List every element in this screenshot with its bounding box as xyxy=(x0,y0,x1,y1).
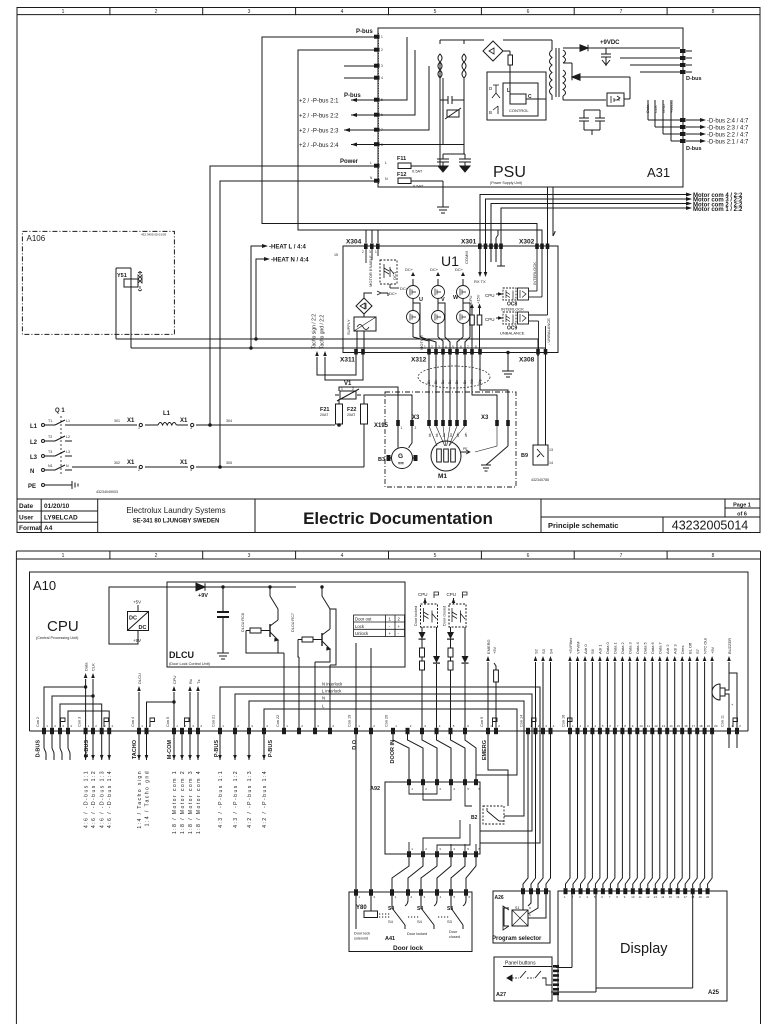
svg-text:Power: Power xyxy=(340,159,359,165)
con4 con5 wires up xyxy=(139,692,198,728)
svg-text:Con 21: Con 21 xyxy=(212,715,216,727)
program selector A26 xyxy=(493,891,550,943)
svg-text:Data: Data xyxy=(83,662,88,671)
svg-text:Tacho sign / 2:2: Tacho sign / 2:2 xyxy=(312,314,318,349)
svg-text:DC: DC xyxy=(129,616,137,622)
X302 pins xyxy=(535,244,549,250)
svg-text:Door closed: Door closed xyxy=(443,606,447,626)
svg-text:Adr 0: Adr 0 xyxy=(583,644,588,654)
svg-text:4: 4 xyxy=(381,76,383,80)
mains rows xyxy=(72,423,364,469)
svg-text:D-BUS: D-BUS xyxy=(36,740,42,758)
svg-text:4:6 / -D-bus 1:3: 4:6 / -D-bus 1:3 xyxy=(100,770,106,828)
svg-text:Con 2: Con 2 xyxy=(36,717,40,727)
svg-text:INTERLOCK: INTERLOCK xyxy=(501,307,524,312)
motor com wires xyxy=(480,187,686,244)
svg-text:G: G xyxy=(398,453,403,460)
CPU bus nest wires xyxy=(44,679,109,728)
svg-text:S6: S6 xyxy=(590,648,595,654)
svg-text:solenoid: solenoid xyxy=(354,937,368,941)
motor enclosure dashed box xyxy=(385,392,516,487)
svg-text:+9V: +9V xyxy=(710,646,715,654)
svg-text:DC+: DC+ xyxy=(430,267,439,272)
svg-text:S4: S4 xyxy=(548,648,553,654)
svg-text:1: 1 xyxy=(381,35,383,39)
svg-text:X1: X1 xyxy=(180,460,188,466)
svg-text:L1: L1 xyxy=(163,411,171,417)
svg-text:CPU: CPU xyxy=(418,592,428,597)
svg-text:4:3 / -P-bus 1:2: 4:3 / -P-bus 1:2 xyxy=(233,770,239,828)
svg-text:Rx: Rx xyxy=(188,679,193,684)
svg-text:Data 3: Data 3 xyxy=(628,641,633,654)
svg-text:(Door Lock Control Unit): (Door Lock Control Unit) xyxy=(169,662,211,666)
svg-text:N: N xyxy=(30,469,34,475)
connector key marks xyxy=(61,718,738,727)
tacho out arrows xyxy=(139,734,147,760)
svg-text:CPU: CPU xyxy=(485,293,495,298)
svg-text:4: 4 xyxy=(341,553,344,559)
U1 box xyxy=(343,246,558,353)
svg-text:DLCU: DLCU xyxy=(169,650,194,660)
svg-text:Data 4: Data 4 xyxy=(635,641,640,654)
motor wires X312 to X3 xyxy=(429,355,508,421)
svg-text:closed: closed xyxy=(449,935,460,939)
svg-text:Data 2: Data 2 xyxy=(620,641,625,654)
D-bus out arrows xyxy=(86,734,110,760)
svg-text:Door locked: Door locked xyxy=(407,932,427,936)
svg-text:D-bus: D-bus xyxy=(686,146,702,152)
ground under U1 xyxy=(502,351,514,377)
svg-text:N1: N1 xyxy=(48,464,53,468)
svg-text:4:6 / -D-bus 1:4: 4:6 / -D-bus 1:4 xyxy=(107,770,113,828)
svg-text:A26: A26 xyxy=(495,895,504,901)
svg-text:Con 9: Con 9 xyxy=(480,717,484,727)
svg-text:SE-341 80 LJUNGBY SWEDEN: SE-341 80 LJUNGBY SWEDEN xyxy=(133,519,220,525)
svg-text:L3: L3 xyxy=(66,450,70,454)
display box xyxy=(558,891,727,1001)
svg-text:A106: A106 xyxy=(27,234,46,243)
svg-text:1: 1 xyxy=(138,426,140,430)
door in wires to A92 xyxy=(393,734,476,782)
svg-text:3: 3 xyxy=(248,553,251,559)
svg-text:Con 5: Con 5 xyxy=(166,717,170,727)
svg-text:EMERG: EMERG xyxy=(482,740,488,760)
svg-text:Q 1: Q 1 xyxy=(55,408,65,414)
svg-text:Data 5: Data 5 xyxy=(643,641,648,654)
svg-text:5: 5 xyxy=(434,553,437,559)
svg-text:S3: S3 xyxy=(541,648,546,654)
svg-text:UNBALANCE: UNBALANCE xyxy=(500,331,525,336)
svg-text:+5V: +5V xyxy=(492,646,497,654)
wires con16 to display xyxy=(566,734,713,888)
svg-text:6: 6 xyxy=(527,553,530,559)
svg-text:Con 3: Con 3 xyxy=(78,717,82,727)
regulator + caps right xyxy=(579,77,630,135)
tacho wires xyxy=(317,353,363,381)
svg-text:N: N xyxy=(385,177,388,181)
X308 pins xyxy=(536,349,547,355)
svg-text:of 6: of 6 xyxy=(737,512,747,518)
svg-text:Con 22: Con 22 xyxy=(276,715,280,727)
main transformer xyxy=(503,40,566,100)
svg-text:DLCU: DLCU xyxy=(137,673,142,684)
svg-text:4:3 / -P-bus 1:1: 4:3 / -P-bus 1:1 xyxy=(218,770,224,828)
svg-text:S3: S3 xyxy=(447,919,453,924)
svg-text:12: 12 xyxy=(654,724,658,728)
svg-text:D-bus: D-bus xyxy=(686,76,702,82)
svg-text:01/20/10: 01/20/10 xyxy=(44,503,70,510)
svg-text:D O: D O xyxy=(352,739,358,750)
svg-text:DLCU RC6: DLCU RC6 xyxy=(241,613,245,632)
X301 pins xyxy=(478,244,503,250)
door out table xyxy=(354,615,405,637)
svg-text:wh: wh xyxy=(464,433,468,437)
svg-text:DC+: DC+ xyxy=(389,291,398,296)
svg-text:Motor com 1 / 2:2: Motor com 1 / 2:2 xyxy=(693,207,743,213)
svg-text:4:6 / -D-bus 1:1: 4:6 / -D-bus 1:1 xyxy=(83,770,89,828)
svg-text:Y80: Y80 xyxy=(356,905,367,911)
svg-text:X304: X304 xyxy=(346,239,362,246)
svg-text:BL Off: BL Off xyxy=(688,642,693,654)
PSU bottom caps and ground xyxy=(437,145,471,214)
svg-text:X195: X195 xyxy=(374,423,389,429)
svg-text:X301: X301 xyxy=(461,239,477,246)
svg-text:Tacho gnd / 2:2: Tacho gnd / 2:2 xyxy=(320,315,326,349)
svg-text:D-BUS: D-BUS xyxy=(84,740,90,758)
door switch S3 xyxy=(438,895,466,929)
svg-text:B: B xyxy=(489,110,492,115)
svg-text:1: 1 xyxy=(62,553,65,559)
svg-text:14: 14 xyxy=(549,461,553,465)
svg-text:Electrolux Laundry Systems: Electrolux Laundry Systems xyxy=(126,506,225,515)
svg-text:8: 8 xyxy=(712,553,715,559)
svg-text:Program selector: Program selector xyxy=(492,936,542,942)
svg-text:Data 0: Data 0 xyxy=(605,641,610,654)
svg-text:U: U xyxy=(419,297,423,303)
svg-text:- UNBALANCE: - UNBALANCE xyxy=(546,318,551,345)
svg-text:X302: X302 xyxy=(519,239,535,246)
svg-text:CPU: CPU xyxy=(447,592,457,597)
MOSFET bridge xyxy=(407,286,470,324)
svg-text:F11: F11 xyxy=(397,156,406,162)
svg-text:S4: S4 xyxy=(388,906,394,912)
A10 box xyxy=(30,572,749,731)
PSU left connector body xyxy=(378,33,380,184)
svg-text:+15V: +15V xyxy=(476,294,481,304)
svg-text:L2: L2 xyxy=(30,440,38,446)
svg-text:18: 18 xyxy=(699,724,703,728)
svg-text:4: 4 xyxy=(190,468,192,472)
svg-text:43232005014: 43232005014 xyxy=(672,519,749,533)
svg-text:-D-bus 2:1 / 4:7: -D-bus 2:1 / 4:7 xyxy=(707,140,749,146)
svg-text:Adr 2: Adr 2 xyxy=(665,644,670,654)
svg-text:Tx: Tx xyxy=(196,680,201,684)
svg-text:7: 7 xyxy=(620,553,623,559)
svg-text:16: 16 xyxy=(684,724,688,728)
svg-text:LY9ELCAD: LY9ELCAD xyxy=(44,515,78,522)
svg-text:Y51: Y51 xyxy=(117,273,127,279)
svg-text:X3: X3 xyxy=(412,415,420,421)
svg-text:1: 1 xyxy=(341,387,343,391)
+9V feed wire xyxy=(109,583,296,644)
svg-text:CPU: CPU xyxy=(172,675,177,684)
svg-text:Door lock: Door lock xyxy=(393,945,423,952)
svg-text:Adr 3: Adr 3 xyxy=(673,644,678,654)
svg-text:17: 17 xyxy=(684,895,688,899)
bridge rectifier xyxy=(483,40,513,85)
svg-text:CLK: CLK xyxy=(91,663,96,671)
svg-text:+2 / -P-bus 2:4: +2 / -P-bus 2:4 xyxy=(299,143,339,149)
svg-text:V1: V1 xyxy=(344,381,352,387)
svg-text:0.5AT: 0.5AT xyxy=(412,169,423,174)
svg-text:PE: PE xyxy=(463,447,468,451)
OC9 unbalance xyxy=(496,249,548,349)
svg-text:+9V: +9V xyxy=(133,638,141,643)
motor com out arrows xyxy=(174,734,198,760)
svg-text:X308: X308 xyxy=(519,357,535,364)
svg-text:DC+: DC+ xyxy=(455,267,464,272)
svg-text:M-COM: M-COM xyxy=(167,740,173,760)
svg-text:Con 4: Con 4 xyxy=(131,717,135,727)
svg-text:1: 1 xyxy=(401,426,403,430)
svg-text:PE: PE xyxy=(28,484,36,490)
svg-text:Dres: Dres xyxy=(680,646,685,654)
title block page 1 xyxy=(17,499,760,533)
svg-text:20: 20 xyxy=(706,895,710,899)
svg-text:X1: X1 xyxy=(180,418,188,424)
svg-text:INTERLOCK: INTERLOCK xyxy=(532,262,537,285)
svg-text:304: 304 xyxy=(226,419,232,423)
svg-text:T3: T3 xyxy=(48,450,52,454)
solenoid Y51 xyxy=(116,268,142,348)
svg-text:4:2 / -P-bus 1:4: 4:2 / -P-bus 1:4 xyxy=(262,770,268,828)
svg-text:S2: S2 xyxy=(533,648,538,654)
emerg wires xyxy=(488,662,498,728)
X311 pins xyxy=(354,349,365,355)
A106 dashed box xyxy=(22,231,174,334)
svg-text:2: 2 xyxy=(381,48,383,52)
page 1 frame xyxy=(17,8,760,533)
S2 S3 S4 xyxy=(528,662,551,734)
svg-text:Display: Display xyxy=(620,941,668,957)
svg-text:S4: S4 xyxy=(388,919,394,924)
svg-text:Principle schematic: Principle schematic xyxy=(548,521,618,530)
svg-text:N: N xyxy=(66,464,69,468)
svg-text:bk: bk xyxy=(428,433,432,437)
door switch S4 xyxy=(408,895,437,929)
svg-text:Date: Date xyxy=(19,503,33,510)
svg-text:CLK: CLK xyxy=(653,105,658,113)
svg-text:2: 2 xyxy=(362,250,364,254)
svg-text:302: 302 xyxy=(114,461,120,465)
phase wires down to X312 xyxy=(413,303,470,349)
svg-text:DOOR IN: DOOR IN xyxy=(390,740,396,764)
door lock assembly box xyxy=(349,892,472,952)
svg-text:14: 14 xyxy=(661,895,665,899)
svg-text:A92: A92 xyxy=(370,786,380,792)
svg-text:P-bus: P-bus xyxy=(344,93,361,99)
svg-text:P-BUS: P-BUS xyxy=(268,740,274,757)
svg-text:COMM: COMM xyxy=(464,251,469,264)
svg-text:DC+: DC+ xyxy=(405,267,414,272)
svg-text:X3: X3 xyxy=(481,415,489,421)
svg-text:43234049003: 43234049003 xyxy=(96,490,118,494)
svg-text:(Central Processing Unit): (Central Processing Unit) xyxy=(36,636,79,640)
svg-text:2: 2 xyxy=(138,468,140,472)
svg-text:B9: B9 xyxy=(521,453,528,459)
svg-text:DLCU RC7: DLCU RC7 xyxy=(291,613,295,632)
svg-text:RX TX: RX TX xyxy=(474,279,486,284)
svg-text:P-bus: P-bus xyxy=(356,29,373,35)
svg-text:L1: L1 xyxy=(66,419,70,423)
svg-text:CPU: CPU xyxy=(485,317,495,322)
motor M1 xyxy=(429,426,508,471)
svg-text:11: 11 xyxy=(639,895,642,899)
svg-text:EMERG: EMERG xyxy=(486,639,491,654)
svg-text:1:4 / Tacho gnd: 1:4 / Tacho gnd xyxy=(144,770,150,826)
svg-text:A4: A4 xyxy=(44,525,53,532)
fuse F11 xyxy=(398,163,443,184)
svg-text:1: 1 xyxy=(375,250,377,254)
p-bus out arrows xyxy=(220,734,264,760)
svg-text:+2 / -P-bus 2:3: +2 / -P-bus 2:3 xyxy=(299,129,339,135)
svg-text:OC1: OC1 xyxy=(392,271,397,280)
stubs below Con 2 xyxy=(44,734,70,760)
svg-text:Page 1: Page 1 xyxy=(733,503,751,509)
svg-text:17: 17 xyxy=(692,724,696,728)
svg-text:15: 15 xyxy=(677,724,681,728)
svg-text:TACHO: TACHO xyxy=(132,739,138,759)
svg-text:10: 10 xyxy=(639,724,643,728)
svg-text:A41: A41 xyxy=(385,936,395,942)
svg-text:3: 3 xyxy=(190,426,192,430)
svg-text:T2: T2 xyxy=(48,435,52,439)
svg-text:DC: DC xyxy=(139,625,147,631)
V1 varistor + fuses F21 F22 xyxy=(335,387,412,467)
svg-text:bk: bk xyxy=(435,433,439,437)
svg-text:8: 8 xyxy=(712,9,715,15)
svg-text:4: 4 xyxy=(341,9,344,15)
X312 pins xyxy=(427,349,482,355)
svg-text:VPWM: VPWM xyxy=(575,642,580,654)
svg-text:1:8 / Motor com 4: 1:8 / Motor com 4 xyxy=(196,770,202,834)
con11 stubs below xyxy=(729,734,737,748)
svg-text:Data 7: Data 7 xyxy=(658,641,663,654)
svg-text:-HEAT L / 4:4: -HEAT L / 4:4 xyxy=(269,245,306,251)
svg-text:15: 15 xyxy=(669,895,673,899)
svg-text:13: 13 xyxy=(654,895,658,899)
svg-text:L: L xyxy=(370,161,372,165)
svg-text:Unlock: Unlock xyxy=(355,631,369,636)
svg-text:Con 19: Con 19 xyxy=(348,715,352,727)
svg-text:Con 14: Con 14 xyxy=(520,715,524,727)
svg-text:User: User xyxy=(19,515,34,522)
svg-text:1: 1 xyxy=(62,9,65,15)
svg-text:Data: Data xyxy=(645,104,650,113)
P-bus arrows xyxy=(344,98,357,147)
svg-text:C: C xyxy=(528,94,532,100)
svg-text:GND: GND xyxy=(661,104,666,113)
heat trunk wires xyxy=(116,246,546,349)
DLCU output wires to Con22 xyxy=(284,609,336,728)
control block xyxy=(487,72,546,120)
svg-text:19: 19 xyxy=(707,724,711,728)
svg-text:Con 11: Con 11 xyxy=(721,715,725,727)
svg-text:-D-bus 2:2 / 4:7: -D-bus 2:2 / 4:7 xyxy=(707,133,749,139)
svg-text:+9V: +9V xyxy=(198,593,208,599)
svg-text:Door lock: Door lock xyxy=(354,932,370,936)
svg-text:V: V xyxy=(441,297,445,303)
svg-text:-D-bus 2:4 / 4:7: -D-bus 2:4 / 4:7 xyxy=(707,119,749,125)
con22 wires up into DLCU (drawn in DLCU section) xyxy=(283,728,285,731)
interlock lines xyxy=(220,687,540,843)
svg-text:B2: B2 xyxy=(471,815,478,821)
svg-text:16: 16 xyxy=(676,895,680,899)
svg-text:CONTROL: CONTROL xyxy=(509,108,529,113)
svg-text:2: 2 xyxy=(155,553,158,559)
svg-text:W: W xyxy=(453,295,459,301)
svg-text:X1: X1 xyxy=(127,418,135,424)
svg-text:1:8 / Motor com 1: 1:8 / Motor com 1 xyxy=(172,770,178,834)
svg-text:CPU: CPU xyxy=(468,295,473,304)
svg-text:+5V: +5V xyxy=(133,600,141,605)
svg-text:-D-bus 2:3 / 4:7: -D-bus 2:3 / 4:7 xyxy=(707,126,749,132)
A10 bottom connector pins xyxy=(42,728,739,734)
svg-text:13: 13 xyxy=(662,724,666,728)
OC8 interlock xyxy=(496,249,542,300)
svg-text:15: 15 xyxy=(334,253,338,257)
svg-text:N: N xyxy=(322,696,325,701)
+9VDC output xyxy=(563,45,680,100)
svg-text:M1: M1 xyxy=(438,473,447,480)
svg-text:1:8 / Motor com 2: 1:8 / Motor com 2 xyxy=(180,770,186,834)
svg-text:432340785: 432340785 xyxy=(531,478,549,482)
svg-text:301: 301 xyxy=(114,419,120,423)
svg-text:L2: L2 xyxy=(66,435,70,439)
svg-text:Format: Format xyxy=(19,525,42,532)
svg-text:SUPPLY: SUPPLY xyxy=(346,319,351,335)
DLCU to Con19 wires xyxy=(277,612,371,728)
svg-text:2: 2 xyxy=(155,9,158,15)
svg-text:F12: F12 xyxy=(397,172,406,178)
svg-text:0.5AT: 0.5AT xyxy=(413,184,424,189)
svg-text:14: 14 xyxy=(669,724,673,728)
svg-text:X312: X312 xyxy=(411,357,427,364)
svg-text:L3: L3 xyxy=(30,455,38,461)
svg-text:(Power Supply Unit): (Power Supply Unit) xyxy=(490,181,522,185)
cable label ellipse under X312 xyxy=(418,366,490,388)
svg-text:L: L xyxy=(385,161,387,165)
svg-text:B3: B3 xyxy=(378,457,385,463)
svg-text:Adr 1: Adr 1 xyxy=(598,644,603,654)
svg-text:6: 6 xyxy=(527,9,530,15)
svg-text:2: 2 xyxy=(352,387,354,391)
svg-text:A25: A25 xyxy=(708,990,720,996)
svg-text:Electric Documentation: Electric Documentation xyxy=(303,509,493,528)
svg-text:bu: bu xyxy=(449,433,453,437)
svg-text:Door out: Door out xyxy=(355,617,372,622)
A92 connector box xyxy=(385,782,480,854)
svg-text:S7: S7 xyxy=(695,648,700,654)
svg-text:7: 7 xyxy=(620,9,623,15)
svg-text:+2 / -P-bus 2:2: +2 / -P-bus 2:2 xyxy=(299,114,339,120)
svg-text:305: 305 xyxy=(226,461,232,465)
svg-text:4:6 / -D-bus 1:2: 4:6 / -D-bus 1:2 xyxy=(91,770,97,828)
DC/DC converter xyxy=(128,605,149,637)
svg-text:Data 1: Data 1 xyxy=(613,641,618,654)
svg-text:PSU: PSU xyxy=(493,164,526,181)
tacho generator B3 xyxy=(387,420,417,469)
